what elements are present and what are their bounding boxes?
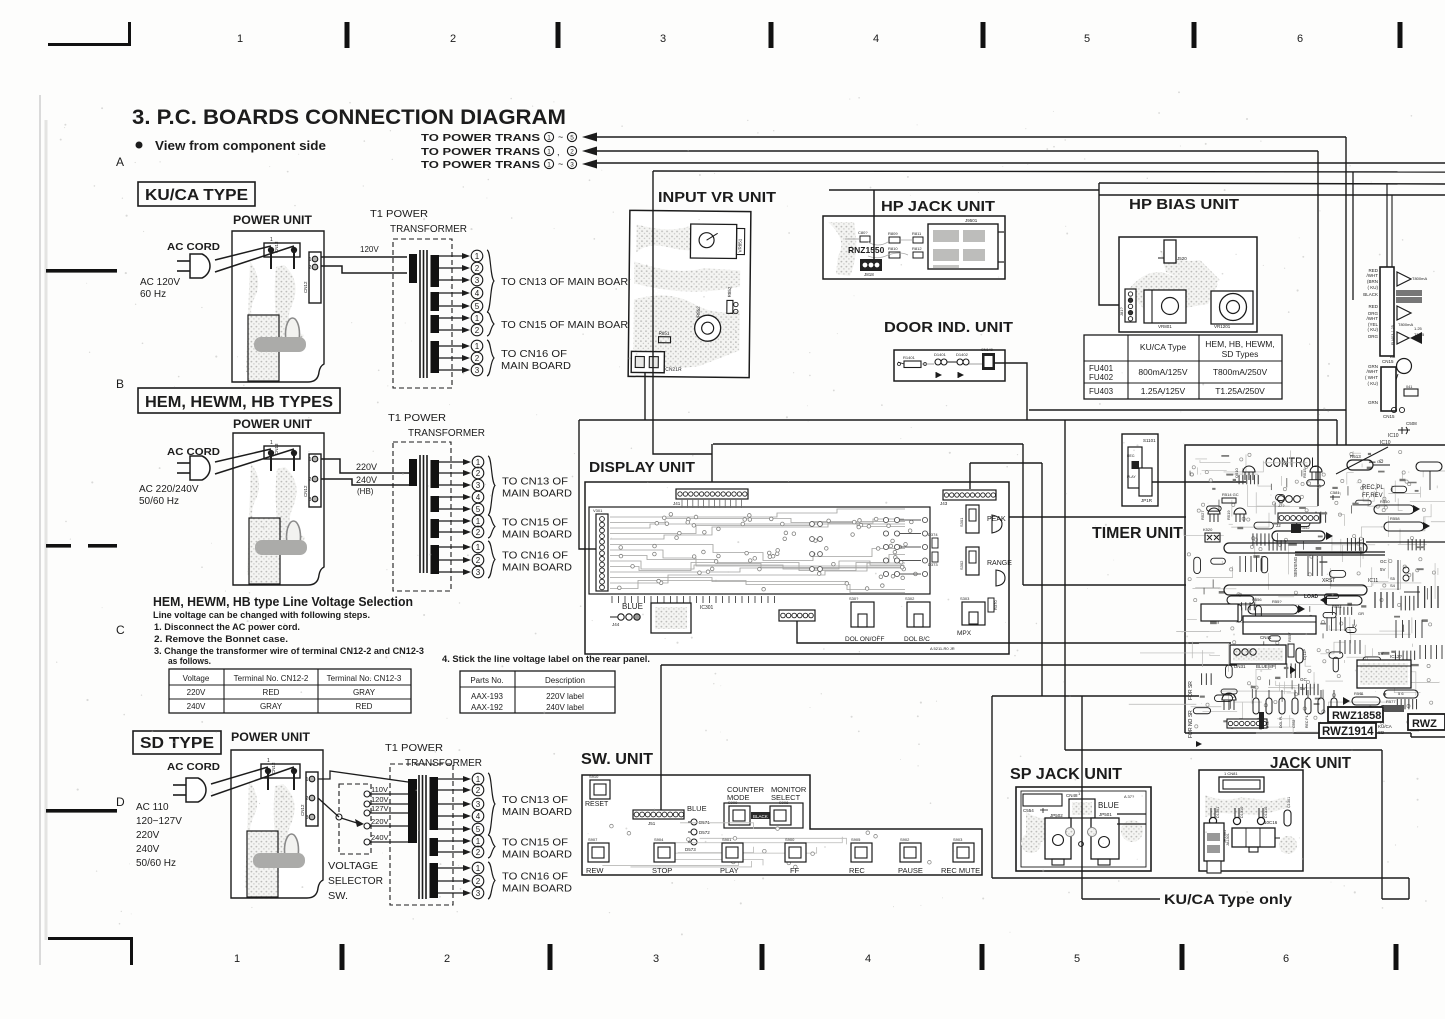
svg-text:JA1301: JA1301	[1226, 833, 1230, 846]
svg-text:R514 GC: R514 GC	[1222, 492, 1239, 497]
svg-text:R552: R552	[1300, 525, 1310, 530]
svg-text:BLACK: BLACK	[1363, 292, 1378, 297]
svg-text:220V: 220V	[187, 688, 206, 697]
resistor R514	[1222, 498, 1236, 503]
svg-text:KU/CA Type: KU/CA Type	[1140, 342, 1186, 352]
secondary lead arrow pin 5	[439, 508, 465, 510]
timer connector JP1R	[1139, 468, 1152, 496]
svg-text:FU403 1.25: FU403 1.25	[1391, 325, 1395, 345]
svg-text:REC MUTE: REC MUTE	[941, 866, 980, 875]
svg-text:DN31: DN31	[1234, 664, 1246, 669]
svg-text:S903: S903	[953, 837, 963, 842]
board copper traces (stipple)	[245, 780, 271, 890]
resistor R1401	[904, 361, 921, 368]
connector CN13 D (SD)	[261, 764, 300, 778]
connector CN81 inner	[1223, 780, 1260, 789]
T1 secondary winding 1	[431, 460, 440, 488]
capacitor C801	[860, 236, 870, 242]
svg-text:MAIN BOARD: MAIN BOARD	[502, 850, 572, 861]
T1 secondary winding 3	[430, 863, 439, 898]
pin number 3	[472, 479, 484, 491]
svg-text:S910: S910	[589, 774, 599, 779]
heatsink block	[249, 518, 280, 584]
bottom connector header	[1227, 719, 1267, 728]
svg-text:CN12: CN12	[303, 485, 308, 497]
svg-text:R591: R591	[1354, 691, 1364, 696]
svg-text:1: 1	[547, 134, 551, 141]
SP jack board outer	[1016, 787, 1151, 871]
connector CN15 upper	[1380, 267, 1394, 356]
svg-text:2: 2	[476, 528, 481, 537]
secondary lead arrow pin 1	[438, 778, 465, 780]
svg-text:CN13: CN13	[271, 762, 276, 774]
wire: CN15 riser to top bus	[1386, 184, 1388, 267]
cord wire 1	[215, 246, 271, 260]
contact pair rows right side	[883, 517, 888, 522]
CN13 pin leads	[270, 253, 272, 269]
svg-text:TRANSFORMER: TRANSFORMER	[405, 757, 482, 769]
power unit board A (KU/CA)	[232, 231, 324, 382]
wire: horizontal bus y=195	[1099, 194, 1445, 196]
svg-text:PLAY: PLAY	[720, 866, 739, 875]
door connector	[982, 353, 995, 370]
connector CN12 D (SD)	[306, 772, 318, 826]
svg-text:TO CN16 OF: TO CN16 OF	[501, 349, 567, 360]
J9501 contact block 3	[933, 249, 959, 261]
connector J43 header	[943, 490, 996, 500]
capsule R556	[1227, 596, 1254, 604]
svg-text:SD: SD	[1378, 730, 1385, 735]
LED D1401	[935, 359, 941, 365]
primary wire	[321, 266, 407, 273]
secondary lead arrow pin 2	[439, 329, 464, 331]
svg-text:/WHT: /WHT	[1367, 316, 1379, 321]
J41 pin stems	[681, 499, 683, 508]
connector CN15 lower	[1381, 367, 1396, 411]
svg-text:HP JACK UNIT: HP JACK UNIT	[881, 198, 995, 215]
HP bias board	[1119, 237, 1257, 332]
svg-text:D573: D573	[685, 847, 696, 852]
svg-text:127V: 127V	[371, 804, 389, 813]
IC-leg hatch right lower	[1419, 645, 1421, 659]
svg-text:TO CN13 OF: TO CN13 OF	[502, 795, 568, 806]
svg-text:S302: S302	[905, 596, 915, 601]
svg-text:AC 220/240V: AC 220/240V	[139, 484, 199, 495]
badge RWZ partial at edge	[1408, 714, 1445, 730]
pin number 4	[472, 491, 484, 503]
svg-text:1: 1	[267, 758, 270, 764]
wire: J41 harness drop x=1023	[1022, 444, 1024, 585]
svg-text:GC: GC	[1300, 677, 1308, 682]
VR851 side strip	[736, 228, 744, 254]
svg-text:HEM, HB, HEWM,: HEM, HB, HEWM,	[1205, 339, 1274, 349]
svg-text:S1101: S1101	[1143, 438, 1156, 443]
brace	[487, 250, 494, 312]
svg-text:1: 1	[309, 257, 312, 263]
transformer T1 A (KU/CA) (dashed outline)	[393, 239, 452, 388]
svg-text:S902: S902	[900, 837, 910, 842]
svg-text:5: 5	[1074, 953, 1080, 965]
svg-text:BLACK: BLACK	[753, 814, 768, 819]
svg-text:S904: S904	[654, 837, 664, 842]
wire: display PEAK row to main board	[1009, 516, 1186, 518]
svg-text:IC10: IC10	[1380, 440, 1391, 446]
diode D571	[691, 819, 697, 825]
vertical resistor bottom 3	[1279, 698, 1285, 714]
svg-text:4: 4	[476, 812, 481, 821]
svg-text:MAIN BOARD: MAIN BOARD	[502, 530, 572, 541]
svg-text:RWZ: RWZ	[1412, 718, 1437, 730]
svg-text:R1401: R1401	[903, 355, 916, 360]
pot VR852 rotor (large)	[695, 315, 721, 341]
plug prong 2	[177, 270, 190, 272]
svg-text:POWER UNIT: POWER UNIT	[233, 419, 312, 431]
pads near R852	[734, 302, 738, 306]
svg-text:BLUE: BLUE	[687, 804, 707, 813]
trim pot VR851 block	[690, 224, 736, 258]
CN12 pin 2	[312, 476, 318, 482]
svg-text:MAIN BOARD: MAIN BOARD	[501, 361, 571, 372]
vertical resistor bottom 7	[1331, 698, 1337, 714]
svg-text:S5: S5	[1390, 576, 1396, 581]
transistor Q527	[1208, 508, 1220, 514]
svg-text:S303: S303	[960, 596, 970, 601]
transistor Q519	[1234, 508, 1246, 514]
table: CN12 terminal colors	[169, 669, 411, 713]
wire D1401-D1402	[947, 361, 957, 363]
svg-text:FOR SR: FOR SR	[1188, 681, 1194, 700]
block left	[1201, 604, 1238, 621]
wire: HP bias unit feed	[1099, 183, 1122, 305]
headphone jack JR1301	[1204, 823, 1224, 861]
svg-text:50/60 Hz: 50/60 Hz	[136, 858, 176, 869]
door indicator board	[894, 350, 1005, 381]
stipple traces	[1128, 270, 1218, 314]
AC plug	[190, 254, 210, 278]
CN13 pin leads	[270, 456, 272, 471]
svg-text:C552: C552	[1292, 720, 1296, 728]
svg-text:CN15: CN15	[1382, 359, 1394, 364]
wire: feed crossing HP jack board	[873, 216, 875, 261]
svg-text:J44: J44	[612, 622, 620, 627]
capacitor body shadow	[253, 853, 305, 868]
svg-text:6: 6	[1283, 953, 1289, 965]
resistor R851	[658, 337, 670, 343]
plug prong 1	[177, 462, 190, 464]
CN12 pin 1	[312, 256, 318, 262]
svg-text:View from component side: View from component side	[155, 139, 326, 153]
speaker jack JP501	[1091, 818, 1119, 859]
diode D573	[691, 839, 697, 845]
svg-text:T1 POWER: T1 POWER	[388, 412, 446, 424]
svg-text:DOOR IND. UNIT: DOOR IND. UNIT	[884, 319, 1013, 336]
svg-text:MPX: MPX	[957, 630, 972, 637]
pin number 2	[471, 262, 483, 274]
svg-text:5: 5	[1084, 33, 1090, 45]
component K520	[1205, 533, 1220, 542]
secondary lead arrow pin 2	[438, 880, 465, 882]
brace	[488, 773, 495, 835]
fuse label blocks	[1396, 290, 1422, 296]
svg-text:1: 1	[234, 953, 240, 965]
T1 core	[418, 775, 420, 899]
switch S909	[729, 806, 750, 825]
power unit board B (HEM/HEWM/HB)	[233, 433, 324, 585]
T1 core	[419, 455, 421, 573]
pin number 2	[472, 526, 484, 538]
svg-text:TO POWER TRANS: TO POWER TRANS	[421, 146, 540, 158]
svg-text:2: 2	[309, 265, 312, 271]
board copper traces (stipple)	[247, 463, 273, 577]
svg-text:4: 4	[873, 33, 879, 45]
svg-text:1: 1	[476, 517, 481, 526]
part S30? right edge	[996, 570, 1005, 586]
connector J818	[860, 259, 882, 271]
speaker-like part right	[992, 515, 1002, 533]
svg-text:3: 3	[476, 889, 481, 898]
svg-text:LOAD: LOAD	[1304, 594, 1319, 600]
svg-text:5V: 5V	[1380, 567, 1386, 572]
svg-text:R55?: R55?	[1272, 599, 1282, 604]
T1 secondary winding 4	[431, 545, 440, 574]
main board small parts scatter	[1363, 657, 1381, 663]
svg-text:1: 1	[476, 864, 481, 873]
plug prong 1	[177, 260, 190, 262]
wire: feed to main board y=585	[1023, 584, 1186, 586]
vertical resistor bottom 6	[1318, 698, 1324, 714]
secondary lead arrow pin 3	[438, 803, 465, 805]
connector CN41	[1243, 616, 1316, 634]
wire: timer to main board	[1152, 481, 1246, 483]
resistor R577	[1384, 705, 1404, 712]
hatch leads group 1	[1239, 556, 1241, 572]
svg-text:4: 4	[475, 289, 480, 298]
pin number 1	[472, 541, 484, 553]
resistor R557 vertical	[1288, 644, 1294, 657]
svg-text:T1.25: T1.25	[1414, 332, 1425, 337]
capsule far right	[1416, 462, 1442, 471]
VR1201 rotor	[1220, 294, 1247, 321]
svg-text:220V: 220V	[371, 817, 389, 826]
IC12 block	[1357, 660, 1411, 688]
double bus line right mid	[1295, 551, 1385, 553]
connector J2 header	[1278, 513, 1320, 523]
svg-text:POWER UNIT: POWER UNIT	[231, 732, 310, 744]
svg-text:2: 2	[475, 264, 480, 273]
secondary lead arrow pin 3	[439, 279, 464, 281]
svg-text:C508: C508	[1406, 421, 1417, 426]
svg-text:SOURCE: SOURCE	[1259, 714, 1263, 730]
selector wire 240V to primary	[370, 841, 408, 843]
SP jack board inner line	[1021, 791, 1146, 867]
selector wire 127V to primary	[370, 812, 408, 814]
svg-text:A 5211-R0 JR: A 5211-R0 JR	[930, 646, 955, 651]
power unit board D (SD)	[231, 750, 323, 898]
svg-text:GRAY: GRAY	[353, 688, 376, 697]
pot VR801 block	[1144, 290, 1186, 323]
svg-text:,: ,	[557, 147, 560, 157]
svg-text:220V: 220V	[136, 830, 160, 841]
CN12 pin 1	[309, 776, 315, 782]
switch S303 MPX	[962, 602, 985, 625]
wire: jack unit corner right (step)	[1381, 878, 1383, 899]
svg-text:10C16: 10C16	[1264, 820, 1278, 825]
svg-text:D: D	[116, 795, 125, 809]
switch S901 PLAY	[722, 843, 743, 862]
svg-text:110V: 110V	[371, 785, 388, 794]
pin number 5	[471, 300, 483, 312]
secondary lead arrow pin 4	[439, 292, 464, 294]
table: fuse ratings	[1084, 335, 1282, 399]
pin number 2	[472, 554, 484, 566]
svg-text:R811: R811	[912, 231, 922, 236]
svg-text:BLUE: BLUE	[622, 602, 643, 611]
svg-text:C(11P: C(11P	[1302, 649, 1307, 660]
svg-text:120−127V: 120−127V	[136, 816, 182, 827]
svg-text:R557: R557	[1287, 632, 1292, 642]
VR801 rotor	[1162, 298, 1179, 315]
svg-text:JP1R: JP1R	[1141, 498, 1153, 503]
pin number 2	[472, 875, 484, 887]
secondary lead arrow pin 1	[439, 520, 465, 522]
svg-text:MAIN BOARD: MAIN BOARD	[502, 563, 572, 574]
T1 secondary winding 3	[431, 315, 440, 333]
T1 core	[419, 250, 421, 378]
wire: HP jack unit feed line	[829, 189, 1099, 191]
contact cluster left-mid	[810, 522, 815, 527]
secondary lead arrow pin 1	[439, 461, 465, 463]
secondary lead arrow pin 5	[438, 828, 465, 830]
svg-text:SP JACK UNIT: SP JACK UNIT	[1010, 766, 1123, 783]
svg-text:120V: 120V	[371, 795, 389, 804]
svg-text:AC CORD: AC CORD	[167, 761, 220, 773]
svg-text:220V: 220V	[356, 462, 377, 472]
secondary lead arrow pin 4	[438, 815, 465, 817]
stipple left	[1021, 833, 1041, 853]
svg-text:REC PL: REC PL	[1305, 715, 1309, 728]
svg-text:Terminal No. CN12-3: Terminal No. CN12-3	[327, 674, 402, 683]
svg-text:GC: GC	[1380, 559, 1388, 564]
svg-text:3: 3	[570, 161, 574, 168]
selector wiper	[336, 814, 342, 820]
CN12 pin 3	[312, 496, 318, 502]
pin number 2	[471, 324, 483, 336]
svg-text:3. Change the transformer wi: 3. Change the transformer wire of termin…	[154, 646, 424, 656]
wire: KU/CA only leader	[1082, 898, 1160, 900]
svg-text:DOL PL: DOL PL	[1279, 716, 1283, 728]
svg-text:1: 1	[475, 342, 480, 351]
svg-text:(HB): (HB)	[357, 487, 374, 496]
jack block JA1301	[1232, 828, 1275, 847]
svg-text:2: 2	[475, 326, 480, 335]
svg-text:D1310: D1310	[1264, 807, 1268, 818]
svg-text:S30?: S30?	[849, 596, 859, 601]
wire: J41 riser	[711, 444, 713, 489]
svg-text:D1401: D1401	[934, 352, 947, 357]
connector V301 (fluorescent display pins)	[596, 514, 608, 591]
svg-text:R851: R851	[659, 331, 670, 336]
svg-text:TIMER UNIT: TIMER UNIT	[1092, 525, 1184, 542]
svg-text:J7?: J7?	[1278, 503, 1285, 508]
pin number 5	[472, 823, 484, 835]
cord wire 1	[211, 767, 268, 784]
svg-text:CN15: CN15	[1383, 414, 1395, 419]
svg-text:T800mA: T800mA	[1398, 322, 1413, 327]
svg-text:1: 1	[309, 457, 312, 463]
svg-text:( KU): ( KU)	[1368, 381, 1379, 386]
CN13 pin 1	[265, 768, 270, 773]
CN13 pin 2	[291, 450, 296, 455]
diode left of R591	[1343, 697, 1350, 705]
svg-text:PLAY: PLAY	[1127, 475, 1136, 479]
vertical resistor bottom 2	[1266, 698, 1272, 714]
wire: riser from J51 to display row	[660, 665, 662, 812]
svg-text:MAIN BOARD: MAIN BOARD	[502, 489, 572, 500]
svg-text:GRN: GRN	[1368, 400, 1378, 405]
main board background traces	[1257, 505, 1290, 507]
svg-text:JP502: JP502	[1050, 813, 1063, 818]
svg-text:CN12: CN12	[300, 804, 305, 816]
svg-text:R558: R558	[1390, 516, 1400, 521]
svg-text:1: 1	[547, 148, 551, 155]
heatsink block	[247, 831, 278, 897]
HP jack board	[823, 216, 1005, 279]
svg-text:1: 1	[547, 161, 551, 168]
svg-text:J2: J2	[1276, 523, 1281, 528]
vertical resistor bottom 5	[1305, 698, 1311, 714]
center pad	[1079, 842, 1084, 847]
svg-text:CN12: CN12	[303, 281, 308, 293]
secondary lead arrow pin 2	[438, 789, 465, 791]
resistor R852	[727, 300, 733, 313]
svg-text:C1301: C1301	[1287, 797, 1291, 808]
brace	[488, 835, 495, 858]
svg-text:IC301: IC301	[700, 605, 714, 611]
svg-text:KU/CA Type only: KU/CA Type only	[1164, 891, 1292, 907]
T1 primary winding	[409, 254, 417, 283]
selector wire 110V to primary	[370, 793, 408, 795]
svg-text:R809: R809	[888, 231, 898, 236]
diode arrow right of R552	[1326, 532, 1333, 540]
wire: SP/Jack harness left	[992, 695, 1199, 697]
svg-text:DOL B/C: DOL B/C	[904, 636, 930, 643]
svg-text:FU401: FU401	[1089, 364, 1114, 373]
svg-text:SD TYPE: SD TYPE	[140, 735, 214, 752]
secondary lead arrow pin 1	[439, 345, 464, 347]
switch S907 REW	[588, 843, 609, 862]
svg-text:3: 3	[475, 366, 480, 375]
svg-text:T1.25A/250V: T1.25A/250V	[1215, 386, 1265, 396]
plug prong 2	[177, 472, 190, 474]
brace	[488, 515, 495, 538]
CN13 pin 2	[291, 247, 296, 252]
secondary lead arrow pin 1	[438, 867, 465, 869]
svg-text:CN48: CN48	[1066, 793, 1078, 798]
capsule R554	[1324, 596, 1362, 605]
svg-text:C581: C581	[1330, 490, 1340, 495]
connector CN12 B (HEM/HEWM/HB)	[309, 454, 321, 507]
switch S302 RANGE	[966, 547, 979, 575]
connector J41 header	[676, 489, 748, 499]
pin number 1	[471, 340, 483, 352]
svg-text:FU402: FU402	[1089, 373, 1114, 382]
svg-text:MAIN BOARD: MAIN BOARD	[502, 807, 572, 818]
svg-text:IC12?: IC12?	[1390, 654, 1403, 659]
diagonal trace top right	[1336, 447, 1388, 474]
jack connector J9501	[928, 224, 998, 269]
secondary lead arrow pin 1	[438, 840, 465, 842]
svg-text:FOR NO SR: FOR NO SR	[1188, 710, 1194, 738]
